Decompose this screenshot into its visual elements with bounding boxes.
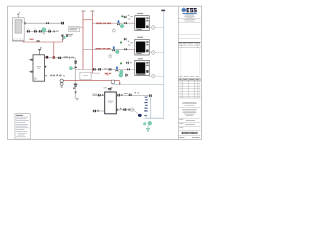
pipe P2 (pump group line): [26, 30, 59, 32]
T3 lower-right pipe: [116, 109, 134, 111]
sensor green on HP2: [120, 41, 122, 43]
text left of vent: [103, 86, 107, 89]
check glyph below HP2 pipe: [109, 55, 112, 58]
wire LB1 to riser R1: [80, 26, 83, 28]
sensor green on HP3: [120, 62, 122, 64]
tank T3 (bottom storage tank): [105, 92, 117, 114]
title block small table lines: [178, 44, 200, 46]
valve V1 on P1: [46, 22, 49, 25]
valve cluster low on M1: [74, 84, 77, 85]
right drop pipe: [150, 95, 152, 118]
R2 top tick: [90, 10, 94, 12]
tank T2 right nub: [45, 66, 47, 68]
unit HP1 label above: [137, 13, 143, 14]
pipe P3 (red boiler line): [27, 41, 63, 43]
T3 lower-left pipe: [92, 110, 104, 112]
red riser stub at end of P3: [62, 36, 64, 42]
valve glyphs on HP3 pipe: [93, 68, 94, 70]
tank T2 top safety valve: [39, 51, 41, 55]
pump PU7 (teal bottom): [148, 121, 152, 125]
teal pump on mid link: [119, 73, 123, 77]
drain marker at M1 end: [76, 98, 78, 100]
pump PU3 on HP1 pipe: [120, 24, 124, 28]
valve before HP2 inlet: [124, 48, 127, 51]
valve pair on P2: [39, 30, 40, 32]
valve pair on M1: [74, 61, 77, 62]
ESS logo globe icon: [182, 8, 186, 12]
drawing frame border: [8, 6, 202, 139]
bottom connector to far riser: [145, 117, 164, 119]
sensor cluster below LB1: [61, 34, 63, 36]
revision table pre-header text: [179, 75, 182, 78]
title block field row: [178, 121, 200, 123]
vent valve on T3: [108, 88, 112, 89]
red main return pipe P7: [63, 79, 119, 81]
sensor green on HP1: [121, 15, 123, 17]
tank T2 (buffer tank): [33, 55, 45, 81]
pump group on P7 start: [60, 79, 64, 83]
valve before HP1 inlet: [124, 22, 127, 25]
valve pair on P2: [27, 30, 28, 32]
node at T1 outlet: [25, 22, 26, 25]
title block field row: [178, 125, 200, 127]
title block left border: [177, 6, 179, 139]
revision table row lines: [178, 83, 200, 85]
text under LB1: [66, 33, 74, 36]
tank T1 vessel: [15, 20, 21, 33]
tank T2 bottom drain glyph: [34, 78, 36, 80]
tank T1 outer jacket: [12, 18, 24, 41]
pump PU4 on HP2 pipe: [116, 50, 120, 54]
motor valve (blue) on HP2 pipe: [113, 47, 115, 50]
valve on M1: [75, 67, 77, 68]
wire T1 base to P3: [22, 41, 24, 42]
title block contact text lines: [184, 19, 196, 22]
unit HP1 compressor block: [136, 18, 145, 29]
unit HP2 label above: [137, 37, 143, 38]
valve pair on P2: [48, 30, 49, 32]
title block notes area inner margins: [180, 48, 182, 98]
red riser R2: [91, 11, 93, 73]
valve pair on P2: [34, 30, 35, 32]
pump PU1 on P2: [42, 28, 46, 32]
tank T3 top vent pipe: [109, 90, 111, 92]
valve right of mid pump: [125, 74, 126, 77]
tank T2 bottom right tag: [45, 75, 47, 76]
DN label on HP2 pipe: [96, 48, 102, 49]
pipe P5 (mid distribution line): [45, 57, 75, 59]
title block project text: [182, 108, 197, 111]
tank T1 top safety valve: [17, 15, 19, 17]
revision table header band: [178, 79, 200, 82]
unit HP3 compressor block: [136, 62, 145, 73]
end connection flanges on P1: [61, 22, 62, 25]
box B2 (expansion module): [80, 72, 91, 80]
title block divider: [178, 17, 200, 19]
unit HP2 compressor block: [136, 42, 145, 53]
title block drawing title bold: [182, 132, 198, 134]
diamond tag D1: [149, 26, 151, 28]
tank T2 label text: [37, 66, 41, 67]
blue tag stack: [145, 97, 148, 98]
mid riser M1 (down to bottom area): [74, 58, 76, 99]
unit HP2 cabinet: [135, 39, 149, 55]
unit HP1 cabinet: [135, 16, 149, 31]
valve above HP1 inlet: [124, 15, 127, 18]
valve pair on P5: [58, 57, 59, 59]
unit HP2 supply pipe: [83, 48, 135, 50]
far right riser top marker: [161, 10, 165, 12]
connector stub below R1/R2: [83, 72, 100, 74]
label box LB1: [68, 27, 79, 32]
valve above HP3 inlet: [126, 61, 129, 64]
pump PU6 (navy): [134, 110, 138, 114]
wire from T1 to pipe P1: [21, 20, 23, 24]
red riser R0 from P3 to P5: [53, 42, 55, 57]
ESS logo blue bar: [182, 12, 196, 15]
tank T3 label: [108, 101, 113, 102]
title block field row: [178, 117, 200, 119]
valve above HP2 inlet: [124, 38, 127, 41]
connector R1-R2 top: [83, 19, 92, 21]
title block bottom divider: [178, 135, 200, 137]
T3 upper-left pipe: [92, 94, 104, 96]
check glyph below HP1 pipe: [112, 29, 115, 32]
valve V2 on P3: [37, 40, 40, 42]
title block divider: [178, 107, 200, 109]
glyph row left of P7: [50, 75, 52, 77]
sensor box above T3: [111, 80, 114, 83]
unit HP3 side details: [146, 62, 148, 63]
title block address text: [183, 101, 196, 104]
red riser at end of P7: [119, 80, 121, 85]
title block bottom row texts: [179, 136, 184, 139]
motor valve (blue) on HP1 pipe: [118, 20, 120, 23]
R1 top tick: [81, 10, 85, 12]
diamond tag D3: [149, 75, 151, 77]
T3 upper-right pipe: [116, 94, 151, 96]
pump PU8 (teal small): [143, 122, 146, 125]
tank T2 left flange upper: [31, 59, 34, 61]
far right riser: [163, 12, 165, 119]
DN label on HP1 pipe: [96, 23, 102, 24]
pump PU2 beside M1: [69, 67, 72, 70]
red valve on riser R0: [53, 56, 55, 59]
legend lines: [16, 116, 28, 119]
title block divider: [178, 38, 200, 40]
size label on P5: [64, 56, 69, 57]
legend box: [15, 114, 30, 139]
diamond tag D2: [149, 51, 151, 53]
unit HP1 supply pipe: [92, 22, 135, 24]
ground-loop marker triangle: [146, 128, 149, 131]
revision table column lines: [182, 79, 184, 99]
sensor link pipe to far riser: [112, 83, 114, 84]
title block small table text marks: [179, 43, 182, 46]
pump PU5 on HP3 pipe: [120, 70, 124, 74]
tank T1 base hatch: [13, 38, 24, 40]
red riser R1: [82, 11, 84, 69]
title block small table top dark line: [178, 42, 200, 44]
ESS logo text: [187, 8, 197, 12]
title block divider: [178, 34, 200, 36]
valve before HP3 inlet: [127, 68, 130, 71]
valve on P2: [54, 30, 55, 32]
label 40 on P3: [30, 39, 34, 40]
legend title: [16, 114, 23, 117]
pipe P1 (top supply): [24, 22, 63, 24]
red tag text left of mid pump: [105, 73, 108, 74]
actuator block right of T2 top: [45, 56, 46, 58]
tank T2 left flange lower: [31, 71, 34, 73]
title block divider: [178, 21, 200, 23]
unit HP2 side details: [146, 41, 148, 42]
unit HP1 side details: [146, 17, 148, 18]
title block company text lines: [185, 14, 194, 17]
motor valve (blue) on HP3 pipe: [116, 67, 118, 70]
unit HP3 cabinet: [135, 60, 149, 75]
unit HP3 supply pipe: [75, 68, 135, 70]
unit HP3 label above: [138, 58, 143, 59]
